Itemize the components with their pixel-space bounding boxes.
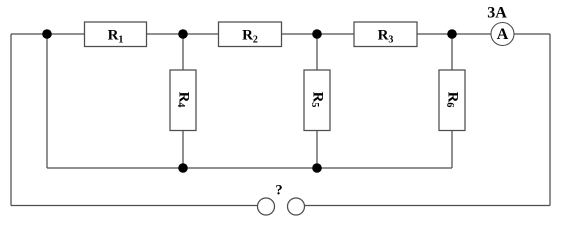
wire bottom left segment xyxy=(11,205,258,207)
svg-text:?: ? xyxy=(275,182,282,198)
resistor R4 xyxy=(170,70,196,131)
wire right vertical xyxy=(549,34,551,206)
node B junction dot xyxy=(178,29,188,39)
wire R1 to node B xyxy=(147,33,219,35)
svg-text:A: A xyxy=(497,26,509,43)
terminal T2 right xyxy=(288,198,305,215)
wire bottom right segment xyxy=(305,205,551,207)
resistor R6 xyxy=(439,70,465,131)
wire middle rail xyxy=(47,167,452,169)
rail junction dot under R4 xyxy=(178,163,188,173)
resistor R1 xyxy=(85,22,147,47)
ammeter U1 xyxy=(491,23,514,46)
wire R6 leads xyxy=(451,34,453,70)
resistor R5 xyxy=(304,70,330,131)
svg-text:3A: 3A xyxy=(487,5,507,22)
wire R3 to node D xyxy=(417,33,452,35)
wire node D to ammeter xyxy=(452,33,491,35)
wire ammeter to right corner xyxy=(514,33,550,35)
wire left vertical xyxy=(10,34,12,206)
wire R5 leads xyxy=(316,34,318,70)
node C junction dot xyxy=(312,29,322,39)
wire top-left from left corner to R1 xyxy=(11,33,85,35)
rail junction dot under R5 xyxy=(312,163,322,173)
resistor R3 xyxy=(354,22,417,47)
wire R2 to node C xyxy=(282,33,355,35)
node D junction dot xyxy=(447,29,457,39)
terminal T1 left xyxy=(258,198,275,215)
node A junction dot xyxy=(42,29,52,39)
wire junction A vertical down xyxy=(46,34,48,168)
resistor R2 xyxy=(219,22,282,47)
wire R4 leads xyxy=(182,34,184,70)
